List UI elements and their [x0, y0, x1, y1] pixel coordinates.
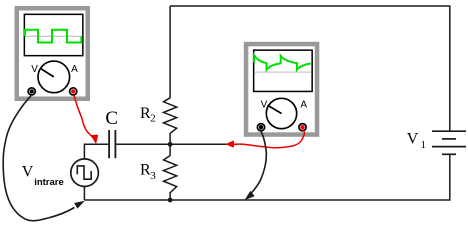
- svg-text:3: 3: [150, 170, 156, 182]
- svg-text:2: 2: [150, 113, 156, 125]
- svg-text:V: V: [22, 163, 34, 180]
- svg-text:C: C: [105, 108, 118, 129]
- svg-text:1: 1: [421, 139, 427, 151]
- svg-text:V: V: [407, 130, 419, 147]
- svg-text:intrare: intrare: [34, 177, 64, 188]
